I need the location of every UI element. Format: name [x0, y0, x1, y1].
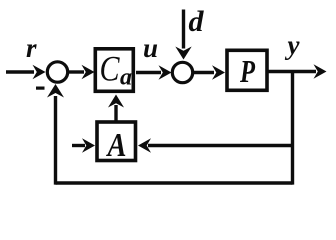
svg-text:y: y — [285, 30, 301, 60]
svg-text:d: d — [189, 5, 205, 38]
svg-text:P: P — [239, 53, 255, 89]
svg-text:A: A — [106, 127, 127, 164]
svg-text:r: r — [26, 33, 37, 63]
svg-text:C: C — [100, 49, 121, 89]
svg-text:a: a — [120, 65, 132, 91]
svg-text:u: u — [143, 33, 158, 63]
